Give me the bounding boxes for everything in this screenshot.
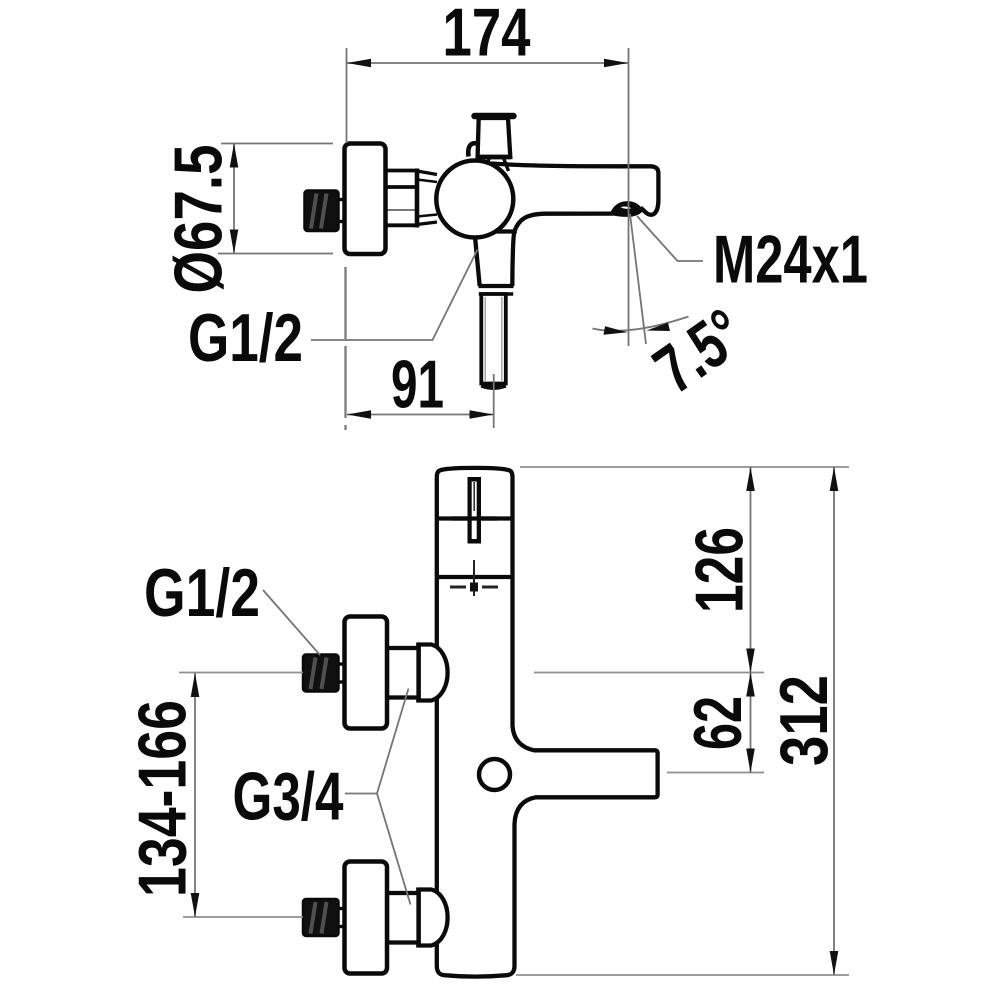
svg-text:G1/2: G1/2 [188,300,303,376]
svg-text:312: 312 [766,675,842,766]
svg-text:126: 126 [682,527,758,613]
svg-text:G1/2: G1/2 [144,555,260,631]
svg-text:M24x1: M24x1 [713,222,868,298]
svg-text:G3/4: G3/4 [233,759,344,835]
svg-text:Ø67.5: Ø67.5 [161,145,237,294]
svg-text:62: 62 [680,696,756,750]
svg-text:174: 174 [443,0,531,70]
svg-text:91: 91 [391,347,444,423]
svg-text:134-166: 134-166 [125,700,201,897]
